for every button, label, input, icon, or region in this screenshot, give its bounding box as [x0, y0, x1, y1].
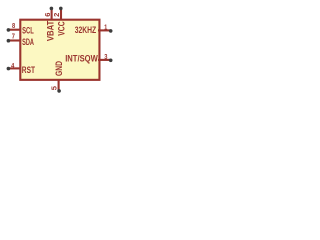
svg-text:SCL: SCL: [22, 24, 34, 35]
svg-text:32KHZ: 32KHZ: [75, 24, 97, 35]
svg-text:2: 2: [52, 13, 61, 17]
svg-text:VCC: VCC: [56, 21, 66, 35]
svg-text:6: 6: [43, 13, 52, 17]
svg-text:GND: GND: [54, 61, 64, 76]
svg-text:INT/SQW: INT/SQW: [65, 53, 98, 64]
svg-text:VBAT: VBAT: [46, 20, 56, 41]
svg-text:SDA: SDA: [22, 36, 34, 47]
svg-text:RST: RST: [22, 64, 35, 75]
svg-text:8: 8: [12, 21, 15, 30]
svg-text:7: 7: [12, 31, 15, 40]
svg-text:1: 1: [104, 23, 107, 32]
svg-text:4: 4: [11, 61, 14, 70]
svg-text:3: 3: [104, 52, 107, 61]
svg-text:5: 5: [50, 86, 59, 90]
